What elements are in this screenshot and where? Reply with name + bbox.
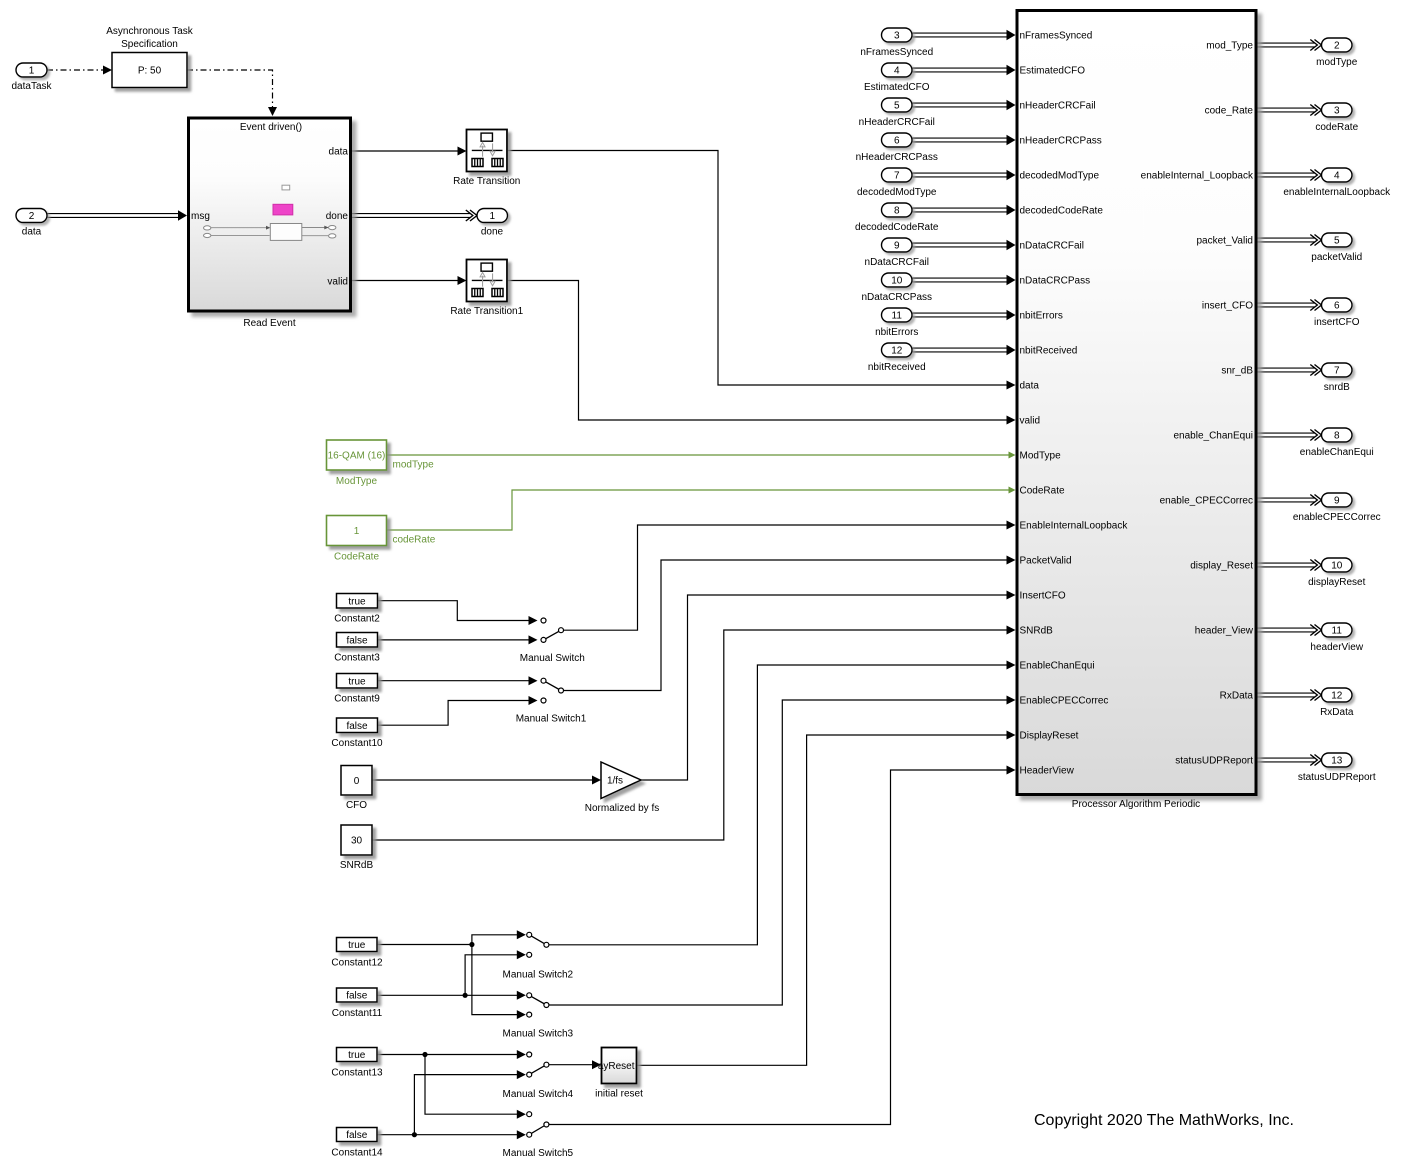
svg-text:CodeRate: CodeRate (334, 552, 379, 563)
svg-text:CodeRate: CodeRate (1020, 486, 1065, 497)
svg-text:Rate Transition: Rate Transition (453, 176, 520, 187)
svg-text:done: done (481, 227, 504, 238)
svg-text:6: 6 (1334, 301, 1340, 312)
svg-text:enableChanEqui: enableChanEqui (1300, 447, 1374, 458)
svg-text:3: 3 (1334, 106, 1340, 117)
svg-text:12: 12 (1331, 691, 1343, 702)
svg-text:Constant12: Constant12 (331, 958, 383, 969)
svg-text:10: 10 (1331, 561, 1343, 572)
svg-text:insertCFO: insertCFO (1314, 317, 1360, 328)
svg-text:Manual Switch1: Manual Switch1 (516, 714, 587, 725)
svg-text:nbitReceived: nbitReceived (868, 362, 926, 373)
svg-text:1/fs: 1/fs (607, 776, 623, 787)
svg-text:RxData: RxData (1320, 707, 1354, 718)
svg-text:dataTask: dataTask (11, 81, 52, 92)
svg-text:modType: modType (393, 460, 435, 471)
svg-text:enableInternal_Loopback: enableInternal_Loopback (1141, 171, 1254, 182)
svg-text:Manual Switch2: Manual Switch2 (503, 970, 574, 981)
svg-text:Copyright 2020 The MathWorks,: Copyright 2020 The MathWorks, Inc. (1034, 1112, 1294, 1129)
svg-text:Rate Transition1: Rate Transition1 (450, 306, 523, 317)
svg-text:nHeaderCRCPass: nHeaderCRCPass (856, 152, 938, 163)
svg-text:decodedCodeRate: decodedCodeRate (855, 222, 939, 233)
svg-text:data: data (329, 147, 349, 158)
svg-text:1: 1 (29, 66, 35, 77)
svg-text:EstimatedCFO: EstimatedCFO (1020, 66, 1086, 77)
svg-text:valid: valid (327, 277, 348, 288)
svg-text:10: 10 (891, 276, 903, 287)
svg-text:SNRdB: SNRdB (340, 860, 374, 871)
svg-text:nDataCRCFail: nDataCRCFail (1020, 241, 1084, 252)
svg-text:enableInternalLoopback: enableInternalLoopback (1283, 187, 1391, 198)
svg-text:nHeaderCRCFail: nHeaderCRCFail (1020, 101, 1096, 112)
svg-text:header_View: header_View (1195, 626, 1254, 637)
svg-text:2: 2 (1334, 41, 1340, 52)
svg-text:false: false (346, 991, 368, 1002)
svg-text:snr_dB: snr_dB (1221, 366, 1253, 377)
svg-text:RxData: RxData (1220, 691, 1254, 702)
svg-text:P: 50: P: 50 (138, 66, 162, 77)
svg-text:packetValid: packetValid (1311, 252, 1362, 263)
svg-text:nHeaderCRCPass: nHeaderCRCPass (1020, 136, 1102, 147)
svg-text:nDataCRCPass: nDataCRCPass (1020, 276, 1091, 287)
svg-text:EstimatedCFO: EstimatedCFO (864, 82, 930, 93)
svg-text:nDataCRCPass: nDataCRCPass (861, 292, 932, 303)
svg-text:enableCPECCorrec: enableCPECCorrec (1293, 512, 1381, 523)
svg-text:4: 4 (894, 66, 900, 77)
svg-text:Constant3: Constant3 (334, 653, 380, 664)
svg-text:Manual Switch: Manual Switch (520, 653, 585, 664)
svg-text:HeaderView: HeaderView (1020, 766, 1075, 777)
svg-text:headerView: headerView (1310, 642, 1363, 653)
svg-text:Constant10: Constant10 (331, 738, 383, 749)
svg-text:nHeaderCRCFail: nHeaderCRCFail (859, 117, 935, 128)
svg-text:initial reset: initial reset (595, 1089, 643, 1100)
svg-text:3: 3 (894, 31, 900, 42)
svg-text:PacketValid: PacketValid (1020, 556, 1072, 567)
svg-text:msg: msg (191, 211, 210, 222)
svg-text:data: data (22, 227, 42, 238)
svg-text:decodedCodeRate: decodedCodeRate (1020, 206, 1104, 217)
svg-text:8: 8 (894, 206, 900, 217)
svg-text:30: 30 (351, 836, 363, 847)
svg-text:Constant9: Constant9 (334, 694, 380, 705)
svg-text:5: 5 (1334, 236, 1340, 247)
svg-text:statusUDPReport: statusUDPReport (1175, 756, 1253, 767)
svg-text:Manual Switch4: Manual Switch4 (503, 1089, 574, 1100)
svg-text:Processor Algorithm Periodic: Processor Algorithm Periodic (1072, 799, 1200, 810)
svg-text:12: 12 (891, 346, 903, 357)
svg-text:snrdB: snrdB (1324, 382, 1350, 393)
svg-text:packet_Valid: packet_Valid (1196, 236, 1253, 247)
svg-text:decodedModType: decodedModType (857, 187, 937, 198)
svg-text:11: 11 (892, 311, 903, 322)
svg-text:nFramesSynced: nFramesSynced (860, 47, 933, 58)
svg-text:11: 11 (1332, 626, 1343, 637)
svg-text:statusUDPReport: statusUDPReport (1298, 772, 1376, 783)
svg-text:nDataCRCFail: nDataCRCFail (865, 257, 929, 268)
svg-text:valid: valid (1020, 416, 1041, 427)
svg-text:9: 9 (1334, 496, 1340, 507)
svg-text:13: 13 (1331, 756, 1343, 767)
svg-text:codeRate: codeRate (1315, 122, 1358, 133)
svg-text:true: true (348, 1050, 366, 1061)
svg-text:ModType: ModType (1020, 451, 1062, 462)
svg-text:8: 8 (1334, 431, 1340, 442)
svg-text:Manual Switch3: Manual Switch3 (503, 1029, 574, 1040)
svg-text:code_Rate: code_Rate (1205, 106, 1254, 117)
svg-text:false: false (346, 721, 368, 732)
svg-text:4: 4 (1334, 171, 1340, 182)
svg-text:display_Reset: display_Reset (1190, 561, 1253, 572)
svg-text:true: true (348, 676, 366, 687)
svg-text:Specification: Specification (121, 39, 178, 50)
svg-text:Constant2: Constant2 (334, 614, 380, 625)
svg-text:nbitErrors: nbitErrors (1020, 311, 1063, 322)
svg-text:0: 0 (354, 776, 360, 787)
svg-text:Read Event: Read Event (243, 318, 295, 329)
svg-text:Normalized by fs: Normalized by fs (585, 803, 659, 814)
svg-text:mod_Type: mod_Type (1206, 41, 1253, 52)
svg-text:Constant13: Constant13 (331, 1068, 383, 1079)
svg-text:EnableInternalLoopback: EnableInternalLoopback (1020, 521, 1129, 532)
svg-text:EnableChanEqui: EnableChanEqui (1020, 661, 1095, 672)
svg-text:Manual Switch5: Manual Switch5 (503, 1148, 574, 1159)
svg-text:false: false (346, 1130, 368, 1141)
svg-text:true: true (348, 940, 366, 951)
svg-text:DisplayReset: DisplayReset (1020, 731, 1079, 742)
svg-text:7: 7 (1334, 366, 1340, 377)
svg-text:enable_CPECCorrec: enable_CPECCorrec (1160, 496, 1253, 507)
svg-text:CFO: CFO (346, 800, 367, 811)
svg-text:done: done (326, 211, 349, 222)
svg-text:Constant14: Constant14 (331, 1148, 383, 1159)
svg-text:16-QAM (16): 16-QAM (16) (328, 451, 386, 462)
svg-text:nbitReceived: nbitReceived (1020, 346, 1078, 357)
svg-text:SNRdB: SNRdB (1020, 626, 1054, 637)
svg-text:Asynchronous Task: Asynchronous Task (106, 26, 194, 37)
svg-text:1: 1 (354, 526, 360, 537)
svg-text:2: 2 (29, 211, 35, 222)
svg-text:ModType: ModType (336, 476, 378, 487)
svg-text:data: data (1020, 381, 1040, 392)
svg-text:EnableCPECCorrec: EnableCPECCorrec (1020, 696, 1109, 707)
svg-text:insert_CFO: insert_CFO (1202, 301, 1253, 312)
svg-text:InsertCFO: InsertCFO (1020, 591, 1066, 602)
svg-text:modType: modType (1316, 57, 1358, 68)
svg-text:Event driven(): Event driven() (240, 122, 302, 133)
svg-text:1: 1 (489, 211, 495, 222)
svg-text:nFramesSynced: nFramesSynced (1020, 31, 1093, 42)
svg-text:9: 9 (894, 241, 900, 252)
svg-text:ayReset: ayReset (598, 1061, 635, 1072)
svg-text:Constant11: Constant11 (332, 1008, 383, 1019)
svg-text:codeRate: codeRate (393, 535, 436, 546)
svg-text:enable_ChanEqui: enable_ChanEqui (1173, 431, 1253, 442)
svg-text:nbitErrors: nbitErrors (875, 327, 918, 338)
svg-text:true: true (348, 596, 366, 607)
svg-text:5: 5 (894, 101, 900, 112)
svg-text:displayReset: displayReset (1308, 577, 1365, 588)
svg-text:6: 6 (894, 136, 900, 147)
svg-text:7: 7 (894, 171, 900, 182)
svg-text:false: false (346, 635, 368, 646)
svg-text:decodedModType: decodedModType (1020, 171, 1100, 182)
